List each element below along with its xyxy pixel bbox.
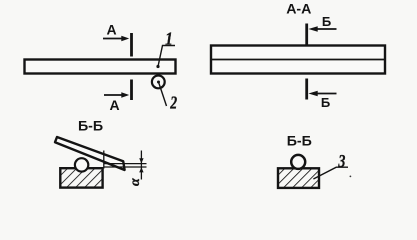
svg-text:Б: Б xyxy=(322,14,331,29)
leader line to label 3 xyxy=(313,167,348,179)
arrow A lower xyxy=(104,92,129,98)
dimension extension line lower xyxy=(104,166,147,168)
roller 2 (circle on block) xyxy=(75,158,88,171)
arrow Б upper xyxy=(308,26,336,31)
section trace A upper xyxy=(130,33,133,57)
arrow Б lower xyxy=(308,91,336,97)
section trace A lower xyxy=(130,80,133,101)
leader line to label 2 xyxy=(159,82,167,106)
support block 3 (hatched) xyxy=(60,168,102,187)
bar section А-А outline xyxy=(211,46,385,74)
svg-text:3: 3 xyxy=(338,153,346,172)
tilted bar 1 (wedge) xyxy=(55,137,125,170)
svg-text:А-А: А-А xyxy=(286,2,311,18)
svg-text:Б: Б xyxy=(321,95,330,110)
bar inner split line xyxy=(211,59,385,61)
section trace Б lower xyxy=(305,79,308,100)
section trace Б upper xyxy=(305,24,308,45)
svg-text:Б-Б: Б-Б xyxy=(78,119,103,135)
leader dot of item 1 on bar xyxy=(156,65,159,68)
svg-text:А: А xyxy=(109,97,119,113)
dimension extension line upper xyxy=(104,163,147,165)
svg-text:α: α xyxy=(128,178,143,186)
stray speck xyxy=(350,176,352,178)
roller 2 (circle) xyxy=(152,76,165,89)
bar 1 (plan view) xyxy=(25,60,176,74)
svg-text:А: А xyxy=(107,22,117,38)
dimension line with arrows for a xyxy=(139,151,143,180)
leader line to label 1 xyxy=(158,46,175,67)
roller 2 (circle on block) xyxy=(291,155,305,169)
support block 3 (hatched) xyxy=(278,168,319,188)
leader dot of item 2 xyxy=(157,81,160,84)
svg-text:1: 1 xyxy=(165,28,173,48)
arrow A upper xyxy=(103,36,129,42)
svg-text:Б-Б: Б-Б xyxy=(287,134,312,150)
svg-text:2: 2 xyxy=(169,94,177,113)
extension line from block edge xyxy=(103,151,105,169)
